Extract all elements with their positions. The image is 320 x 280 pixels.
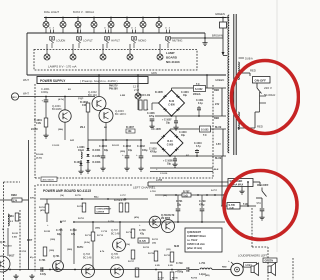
svg-text:2: 2 [135,28,136,30]
svg-text:R-1007: R-1007 [126,126,135,129]
svg-text:R-713: R-713 [97,235,104,237]
svg-text:PNP: PNP [78,97,84,101]
svg-text:220 V: 220 V [264,86,272,90]
svg-text:W: W [2,229,4,231]
svg-text:C-701: C-701 [39,259,46,262]
svg-text:2: 2 [53,28,54,30]
svg-text:R-727: R-727 [128,261,135,263]
svg-text:LOUDSPEAKERS LEFT: LOUDSPEAKERS LEFT [238,254,268,258]
svg-text:C18: C18 [82,104,87,107]
svg-text:BLTH: BLTH [77,246,83,249]
svg-text:LAMP: LAMP [166,51,175,55]
svg-text:50-60Hz: 50-60Hz [264,93,276,97]
svg-text:R-1011: R-1011 [112,145,120,147]
svg-text:R-1009: R-1009 [36,154,44,156]
svg-text:8×8.0 V · 300mA: 8×8.0 V · 300mA [73,10,94,14]
svg-text:R-715: R-715 [126,232,133,234]
svg-text:(470): (470) [40,209,45,212]
svg-text:C-705: C-705 [56,229,63,232]
svg-text:D-1003: D-1003 [93,161,102,164]
svg-text:33µ: 33µ [57,233,62,236]
svg-text:(47k): (47k) [134,216,139,219]
svg-text:174: 174 [13,200,18,203]
svg-text:MONO: MONO [138,39,146,43]
svg-text:C-719: C-719 [176,262,183,265]
svg-text:BLK: BLK [214,169,219,171]
svg-text:0.5Ω: 0.5Ω [12,237,17,239]
svg-text:10µ: 10µ [166,123,171,125]
svg-text:10µ: 10µ [128,149,133,152]
svg-text:4.5V: 4.5V [216,143,221,146]
svg-text:C-1013: C-1013 [52,145,60,147]
svg-text:(1Ω): (1Ω) [166,249,171,251]
svg-text:i.e. 70mV: i.e. 70mV [187,239,198,242]
svg-text:LAMPS 8 V - 170 mA: LAMPS 8 V - 170 mA [48,65,77,69]
svg-text:R-721: R-721 [152,239,159,241]
svg-text:100µ: 100µ [142,149,148,152]
svg-text:2: 2 [108,28,109,30]
svg-text:+: + [228,259,230,263]
svg-text:S-1002: S-1002 [195,89,203,91]
svg-text:C-1013: C-1013 [194,143,202,145]
svg-text:R-711: R-711 [85,235,92,237]
svg-text:GREEN: GREEN [215,12,225,16]
svg-text:HI-FILT: HI-FILT [111,39,120,43]
svg-text:(56k): (56k) [58,129,63,131]
svg-text:2 W: 2 W [134,88,139,92]
svg-text:T-X: T-X [203,135,207,137]
svg-text:(1A): (1A) [230,207,235,210]
svg-text:R-741: R-741 [12,232,19,235]
svg-text:4700µ: 4700µ [150,151,157,154]
svg-text:R-731: R-731 [164,255,171,257]
svg-text:GRN: GRN [151,71,157,75]
svg-text:RED: RED [257,125,263,129]
svg-text:BLUE: BLUE [215,158,222,160]
svg-text:R-735: R-735 [172,278,179,280]
svg-text:NLW: NLW [174,246,180,248]
svg-text:470µ: 470µ [149,115,155,118]
svg-text:10k: 10k [128,130,133,133]
svg-text:R-715: R-715 [75,195,82,197]
svg-text:S-717: S-717 [211,190,218,192]
svg-text:0.1µ: 0.1µ [198,103,203,105]
svg-text:(100): (100) [50,239,55,241]
svg-text:10µ: 10µ [181,135,186,137]
svg-text:OVERCURRENT: OVERCURRENT [97,209,112,211]
svg-text:1000µ: 1000µ [41,90,49,94]
svg-text:L-701: L-701 [199,262,206,265]
svg-text:(2.2k): (2.2k) [84,242,90,244]
svg-text:50%: 50% [30,198,34,200]
svg-text:LO-FILT: LO-FILT [83,39,93,43]
svg-text:0.5Ω: 0.5Ω [155,265,160,267]
svg-text:POWER SUPPLY: POWER SUPPLY [40,79,66,83]
svg-text:GREEN: GREEN [215,78,224,82]
svg-text:WHT: WHT [23,92,29,96]
svg-text:NO.41193: NO.41193 [166,60,180,64]
svg-text:RED: RED [214,117,219,120]
svg-text:C-717: C-717 [120,195,127,197]
svg-text:R-706: R-706 [191,278,198,280]
svg-text:D-1001: D-1001 [93,149,102,152]
svg-text:R-723: R-723 [143,247,150,249]
svg-text:+ C-1007: + C-1007 [162,120,172,122]
svg-text:2: 2 [80,28,81,30]
svg-text:D-1002: D-1002 [93,155,102,158]
svg-text:R-709 R-717: R-709 R-717 [114,200,127,202]
svg-text:MDT: MDT [27,239,33,242]
svg-text:RED: RED [214,89,219,92]
svg-text:S-709: S-709 [108,221,115,223]
svg-text:BC148C: BC148C [52,107,62,111]
svg-text:C-715: C-715 [101,231,108,233]
svg-text:2: 2 [169,28,170,30]
svg-text:2N.J: 2N.J [80,126,86,129]
svg-text:10µH: 10µH [78,149,84,152]
svg-text:10µ: 10µ [183,95,188,97]
svg-text:2N 3055: 2N 3055 [161,217,171,220]
svg-text:C-709: C-709 [70,229,77,232]
svg-text:CURRENT 60mA: CURRENT 60mA [187,235,206,238]
svg-text:47µ: 47µ [71,233,76,236]
svg-text:BOARD: BOARD [166,56,178,60]
svg-text:47µ: 47µ [140,233,145,236]
svg-text:C-1010: C-1010 [179,132,187,134]
svg-text:ACC 100mV: ACC 100mV [43,178,55,181]
svg-text:ON-OFF: ON-OFF [255,79,267,83]
svg-text:D-1005: D-1005 [155,91,164,94]
svg-text:LIMITER: LIMITER [97,212,105,214]
svg-text:R-733: R-733 [158,278,165,280]
svg-text:BC 148: BC 148 [83,257,92,260]
svg-text:21V: 21V [215,103,220,106]
svg-text:+: + [42,99,44,103]
svg-text:97A: 97A [257,202,262,205]
svg-text:0.47µ: 0.47µ [40,273,47,276]
svg-text:(220): (220) [120,151,125,153]
svg-text:R-703: R-703 [39,207,46,209]
svg-text:C1N: C1N [36,122,41,125]
svg-text:R-729: R-729 [148,253,155,255]
svg-text:BLUE: BLUE [215,127,222,129]
svg-text:WHT: WHT [23,78,29,82]
svg-text:Q-75: Q-75 [0,241,6,244]
svg-text:(560): (560) [67,249,72,251]
svg-text:(3.3k): (3.3k) [36,158,42,160]
svg-text:DUB A: DUB A [245,57,253,61]
svg-text:4: 4 [104,27,105,30]
svg-text:(100): (100) [49,250,54,252]
svg-text:J-703: J-703 [150,191,156,193]
svg-text:+ C-1008: + C-1008 [163,161,173,163]
svg-text:R-751: R-751 [78,218,85,220]
svg-text:33µ: 33µ [104,149,109,152]
svg-text:B(L): B(L) [94,197,99,199]
svg-text:J-705: J-705 [156,179,163,182]
svg-text:(1k): (1k) [126,244,130,246]
svg-text:GREEN: GREEN [265,260,274,263]
svg-text:BC 148 C: BC 148 C [115,112,126,116]
svg-text:4.7µ: 4.7µ [196,145,201,148]
svg-text:OVER 0.18 ohm: OVER 0.18 ohm [187,243,205,246]
svg-text:NJF: NJF [70,140,75,142]
svg-text:4: 4 [76,27,77,30]
svg-text:BC 148: BC 148 [111,257,120,260]
svg-text:R-725: R-725 [140,241,147,243]
svg-text:C-1011: C-1011 [196,100,204,102]
svg-text:PW-28V: PW-28V [109,88,118,91]
svg-text:C-1005: C-1005 [153,128,162,131]
svg-text:(after 10 min): (after 10 min) [187,247,202,250]
svg-text:C-1004: C-1004 [181,91,189,94]
svg-text:C-1010: C-1010 [160,173,168,175]
svg-text:S-1003: S-1003 [201,129,209,131]
svg-text:MUTING: MUTING [172,39,182,43]
svg-text:LEFT CHANNEL: LEFT CHANNEL [133,186,156,190]
svg-text:RED: RED [250,69,256,73]
svg-text:C-800: C-800 [168,104,175,107]
svg-text:ON-OFF: ON-OFF [257,183,269,187]
svg-text:200mA: 200mA [193,93,201,96]
svg-text:RED: RED [222,267,227,269]
svg-text:(8Ω): (8Ω) [205,275,210,277]
svg-text:BO 140: BO 140 [88,93,97,97]
svg-text:(56): (56) [163,195,167,197]
svg-text:0.5Ω: 0.5Ω [168,265,173,267]
svg-text:C-703: C-703 [20,251,27,253]
svg-text:LOUDN: LOUDN [56,39,65,43]
svg-text:4: 4 [49,27,50,30]
svg-text:R-705: R-705 [77,206,84,208]
svg-text:1kΩ: 1kΩ [183,196,188,198]
svg-text:(39k): (39k) [95,228,100,230]
svg-text:BC 148: BC 148 [111,233,120,236]
svg-text:C-800: C-800 [167,144,174,147]
svg-text:9017: 9017 [9,255,15,258]
svg-text:4: 4 [131,27,132,30]
svg-text:QUIESCENT: QUIESCENT [187,231,201,234]
svg-text:+4700µ: +4700µ [175,271,184,274]
svg-text:4: 4 [165,27,166,30]
svg-text:(1k): (1k) [60,195,64,197]
svg-text:Q-701: Q-701 [53,256,60,258]
svg-text:KD-503: KD-503 [4,246,12,248]
svg-text:(10): (10) [152,243,156,245]
svg-text:(4.7k): (4.7k) [58,98,64,101]
svg-text:23+30: 23+30 [31,128,38,131]
svg-text:POWER AMP. BOARD NO.41115: POWER AMP. BOARD NO.41115 [43,189,91,193]
svg-text:DIAL LIGHT: DIAL LIGHT [44,10,59,14]
svg-text:10µ: 10µ [167,164,172,166]
svg-text:C-1006: C-1006 [147,113,155,115]
svg-text:R-743: R-743 [44,230,51,233]
svg-text:R983: R983 [11,194,17,197]
svg-text:C-1016: C-1016 [149,149,157,151]
svg-text:BROWN: BROWN [212,34,223,38]
